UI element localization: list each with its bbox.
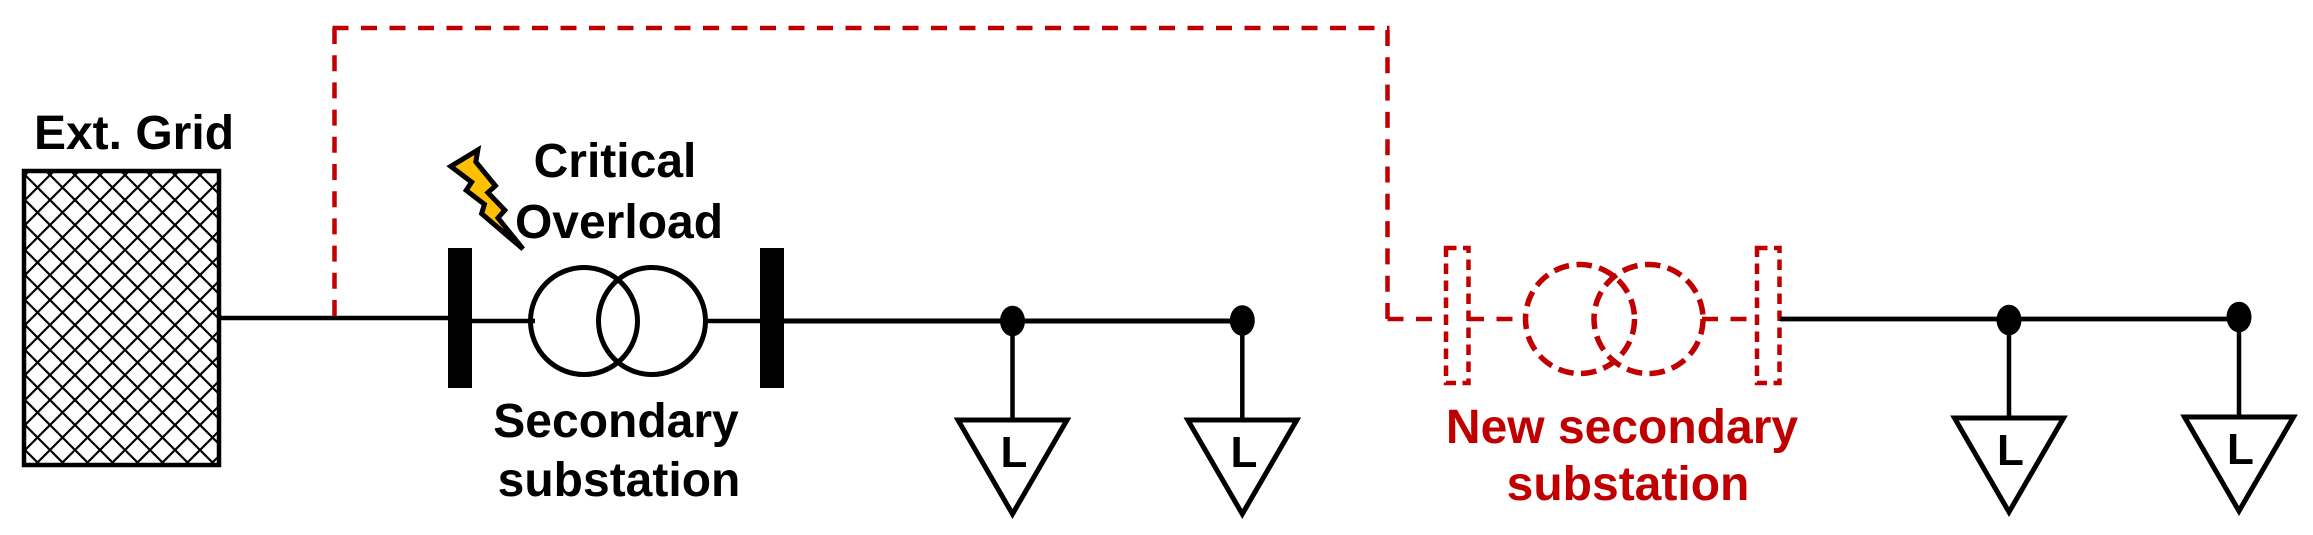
wire: proposed feeder to new substation (red dashed horizontal) <box>1388 317 1447 322</box>
wire: busbar B1 to transformer T1 <box>472 319 535 324</box>
svg-text:L: L <box>1231 428 1258 477</box>
node N1 (junction dot) <box>1000 306 1025 337</box>
busbar B4 (new, red dashed bar) <box>1757 248 1780 383</box>
load L2 (triangle) <box>1188 420 1297 514</box>
load L4 (triangle) <box>2185 417 2294 511</box>
svg-text:substation: substation <box>498 454 741 507</box>
svg-text:Overload: Overload <box>515 196 723 249</box>
svg-text:L: L <box>1001 428 1028 477</box>
svg-text:substation: substation <box>1507 458 1750 511</box>
svg-text:L: L <box>1997 426 2024 475</box>
wire: node N1 to load L1 <box>1010 321 1015 420</box>
wire: busbar B4 to node N4 <box>1780 317 2239 322</box>
busbar B1 (black bar) <box>448 248 472 388</box>
svg-text:New secondary: New secondary <box>1446 401 1798 454</box>
transformer T2 secondary winding (red dashed) <box>1594 265 1703 374</box>
wire: proposed feeder (red dashed horizontal top) <box>333 26 1390 31</box>
wire: busbar B3 to transformer T2 (red dashed) <box>1468 317 1528 322</box>
transformer T2 primary winding (red dashed) <box>1526 265 1635 374</box>
lightning bolt (overload flash) <box>451 150 523 249</box>
wire: node N2 to load L2 <box>1240 321 1245 420</box>
svg-text:Critical: Critical <box>534 135 697 188</box>
node N3 (junction dot) <box>1997 305 2022 336</box>
wire: node N4 to load L4 <box>2237 317 2242 417</box>
load L3 (triangle) <box>1955 418 2064 512</box>
wire: proposed feeder tap (red dashed vertical left) <box>332 28 337 316</box>
svg-text:Secondary: Secondary <box>493 395 739 448</box>
busbar B2 (black bar) <box>760 248 784 388</box>
svg-text:L: L <box>2227 425 2254 474</box>
load L1 (triangle) <box>958 420 1067 514</box>
wire: proposed feeder drop (red dashed vertical right) <box>1385 30 1390 319</box>
transformer T1 primary winding <box>531 268 638 375</box>
wire: transformer T2 to busbar B4 (red dashed) <box>1702 317 1757 322</box>
node N4 (junction dot) <box>2227 302 2252 333</box>
transformer T1 secondary winding <box>599 268 706 375</box>
wire: busbar B2 to node N2 <box>784 319 1242 324</box>
node N2 (junction dot) <box>1230 305 1255 336</box>
wire: transformer T1 to busbar B2 <box>703 319 762 324</box>
external grid EXT (hatched rectangle) <box>24 171 219 465</box>
wire: node N3 to load L3 <box>2007 320 2012 418</box>
svg-text:Ext. Grid: Ext. Grid <box>34 107 234 160</box>
wire: grid to MV busbar B1 <box>219 316 452 321</box>
busbar B3 (new, red dashed bar) <box>1446 248 1469 383</box>
